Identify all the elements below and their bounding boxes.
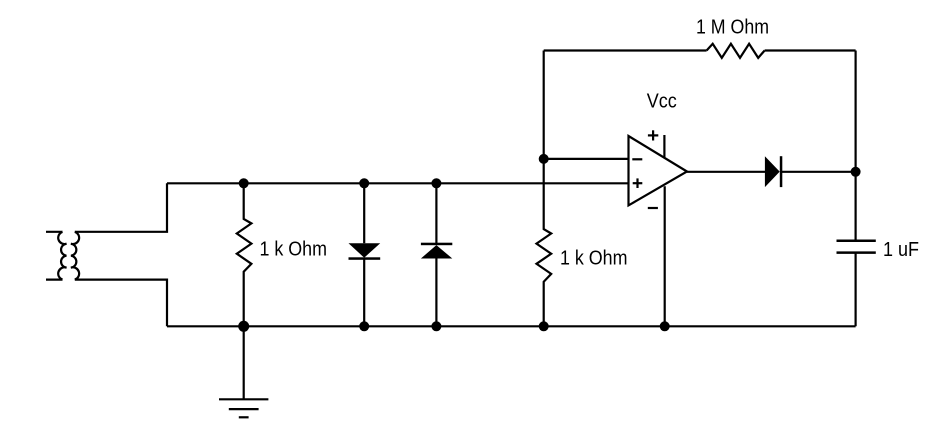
wire: transformer secondary bottom lead to corner [75, 280, 167, 327]
resistor R1 1 k Ohm (vertical) [237, 183, 252, 326]
wire: transformer primary bottom lead [46, 279, 63, 281]
node: junction R2 bottom [539, 321, 549, 331]
node: junction D2 top [431, 178, 441, 188]
diode D2 cathode bar [421, 243, 452, 246]
wire: transformer secondary top lead to corner [75, 183, 167, 232]
op-amp U1 negative supply minus label [648, 207, 658, 209]
svg-text:Vcc: Vcc [647, 91, 677, 113]
ground symbol bar 2 [229, 408, 259, 410]
wire: diode D1 bottom lead [363, 259, 365, 327]
svg-text:1 uF: 1 uF [883, 239, 919, 261]
wire: top feedback rail right segment [765, 49, 856, 51]
node: output junction [851, 167, 861, 177]
wire: output node down to capacitor C1 [854, 172, 856, 241]
wire: ground stem [243, 326, 245, 399]
wire: op-amp output to diode D3 [687, 171, 765, 173]
wire: diode D3 cathode to output node [781, 171, 856, 173]
wire: diode D1 top lead [363, 183, 365, 243]
diode D3 triangle (pointing right) [765, 156, 780, 187]
node: junction R1 top [239, 178, 249, 188]
wire: capacitor C1 bottom lead to ground rail [854, 253, 856, 327]
op-amp U1 inverting input minus label [632, 158, 642, 160]
resistor R3 1 M Ohm (horizontal) [707, 44, 765, 58]
wire: top feedback rail left segment [544, 49, 707, 51]
diode D1 triangle (pointing down) [349, 243, 381, 258]
svg-text:1 M Ohm: 1 M Ohm [696, 16, 769, 38]
wire: transformer primary top lead [46, 231, 63, 233]
wire: diode D2 bottom lead [435, 259, 437, 327]
ground symbol bar 1 [219, 398, 268, 400]
capacitor C1 top plate [837, 239, 876, 242]
op-amp U1 negative supply pin to ground rail [664, 186, 666, 326]
transformer T1 secondary winding [71, 232, 79, 280]
node: ground junction R1 bottom [238, 321, 249, 332]
resistor R2 1 k Ohm (vertical) [537, 159, 552, 326]
svg-text:1 k Ohm: 1 k Ohm [260, 239, 328, 261]
diode D3 cathode bar [780, 156, 783, 187]
op-amp U1 positive supply plus label [648, 130, 658, 140]
node: junction op-amp supply bottom [660, 321, 670, 331]
transformer T1 primary winding [58, 232, 66, 280]
op-amp U1 triangle [629, 136, 688, 205]
wire: inverting input wire to op-amp [544, 158, 629, 160]
wire: diode D2 top lead [435, 183, 437, 244]
wire: feedback left vertical from top rail to inverting node [543, 51, 545, 159]
op-amp U1 positive supply pin [663, 135, 665, 158]
ground symbol bar 3 [239, 416, 249, 418]
wire: right vertical from top rail to output node [854, 51, 856, 172]
wire: main signal rail to op-amp plus input [167, 182, 629, 184]
node: inverting input junction [539, 154, 549, 164]
op-amp U1 non-inverting input plus label [633, 178, 643, 188]
wire: bottom ground rail [167, 325, 856, 327]
svg-text:1 k Ohm: 1 k Ohm [560, 248, 628, 270]
node: junction D1 bottom [359, 321, 369, 331]
node: junction D1 top [359, 178, 369, 188]
diode D1 cathode bar [349, 257, 381, 260]
node: junction D2 bottom [431, 321, 441, 331]
capacitor C1 bottom plate [837, 251, 876, 254]
diode D2 triangle (pointing up) [421, 245, 452, 258]
